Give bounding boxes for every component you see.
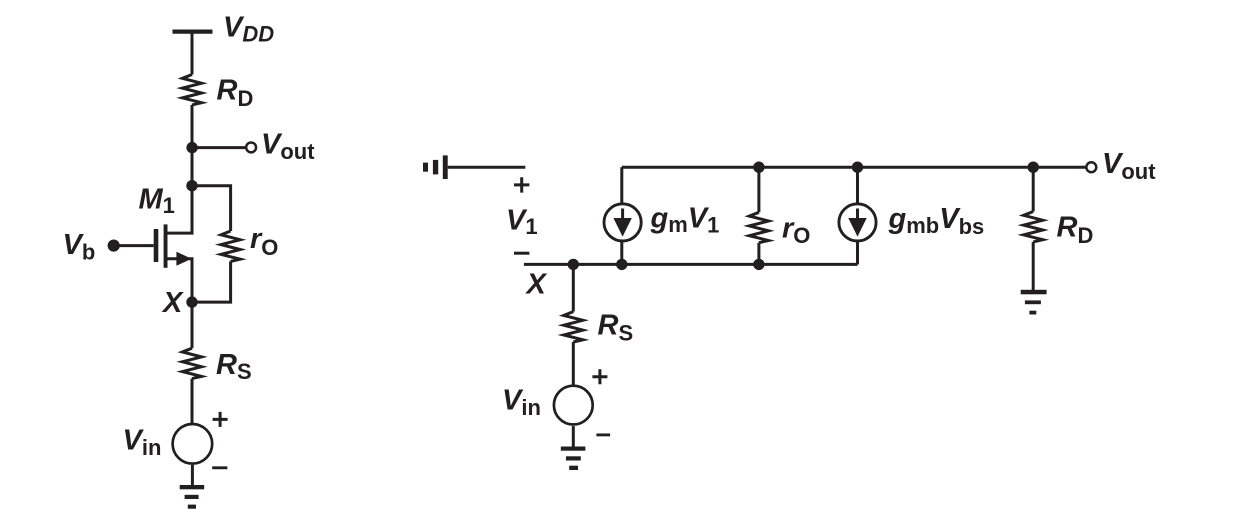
resistor RS bbox=[564, 312, 583, 342]
wire output node to drain node bbox=[191, 148, 194, 186]
wire gate lead bbox=[114, 244, 154, 247]
wire gmb source top stub bbox=[856, 167, 859, 206]
resistor RD bbox=[1024, 212, 1043, 242]
wire RD top stub bbox=[1032, 167, 1035, 211]
node RD top junction dot bbox=[1028, 162, 1039, 173]
current source gmbVbs bbox=[839, 204, 876, 241]
wire RS to Vin source bbox=[191, 379, 194, 423]
VDD supply bar bbox=[173, 30, 213, 34]
node X junction dot bbox=[568, 259, 579, 270]
wire node X rail bbox=[524, 263, 858, 266]
terminal Vout open circle bbox=[246, 142, 256, 152]
node drain junction dot bbox=[186, 180, 197, 191]
wire RD bottom to ground bbox=[1032, 242, 1035, 291]
wire X to RS bbox=[191, 302, 194, 348]
wire VDD bar to RD bbox=[191, 32, 194, 75]
wire rO bottom to node X bbox=[192, 261, 231, 302]
label - polarity V1 bbox=[514, 252, 529, 255]
svg-text:X: X bbox=[525, 268, 548, 300]
wire output stub bbox=[192, 146, 246, 149]
wire Vin to ground bbox=[191, 465, 194, 486]
resistor RS bbox=[182, 348, 201, 378]
node gmb source top junction dot bbox=[852, 162, 863, 173]
resistor rO bbox=[749, 212, 768, 242]
label + polarity bbox=[592, 369, 607, 384]
wire gm source top stub bbox=[620, 167, 623, 206]
label + polarity V1 bbox=[514, 177, 529, 192]
wire top rail bbox=[622, 166, 1087, 169]
source Vin circle bbox=[173, 424, 213, 464]
label + polarity bbox=[213, 412, 228, 427]
wire gate lead (AC ground to gate) bbox=[448, 166, 526, 169]
wire RD to output node bbox=[191, 105, 194, 148]
wire gm source bottom stub bbox=[620, 240, 623, 264]
resistor rO bbox=[221, 231, 240, 261]
resistor RD bbox=[182, 75, 201, 105]
wire rO bottom stub bbox=[757, 243, 760, 265]
node Vb terminal dot bbox=[108, 240, 120, 252]
ground bbox=[1021, 290, 1047, 315]
terminal Vout open circle bbox=[1086, 162, 1096, 172]
AC ground at gate bbox=[423, 155, 448, 179]
source Vin circle bbox=[554, 386, 593, 425]
ground bbox=[561, 447, 586, 471]
wire drain to rO branch bbox=[192, 186, 231, 231]
wire gmb source bottom stub bbox=[856, 240, 859, 264]
node gm source bottom junction dot bbox=[616, 259, 627, 270]
wire X to RS bbox=[572, 264, 575, 311]
wire rO top stub bbox=[757, 167, 760, 212]
wire RS to Vin bbox=[572, 342, 575, 385]
node rO bottom junction dot bbox=[753, 259, 764, 270]
current source gmV1 bbox=[604, 204, 641, 241]
transistor M1 bbox=[154, 186, 192, 302]
wire Vin to ground bbox=[572, 426, 575, 447]
label - polarity bbox=[596, 433, 610, 436]
node rO top junction dot bbox=[753, 162, 764, 173]
node Vout junction dot bbox=[186, 142, 197, 153]
svg-text:X: X bbox=[161, 287, 184, 319]
label - polarity bbox=[212, 466, 227, 469]
ground bbox=[180, 485, 205, 509]
node X junction dot bbox=[186, 296, 197, 307]
